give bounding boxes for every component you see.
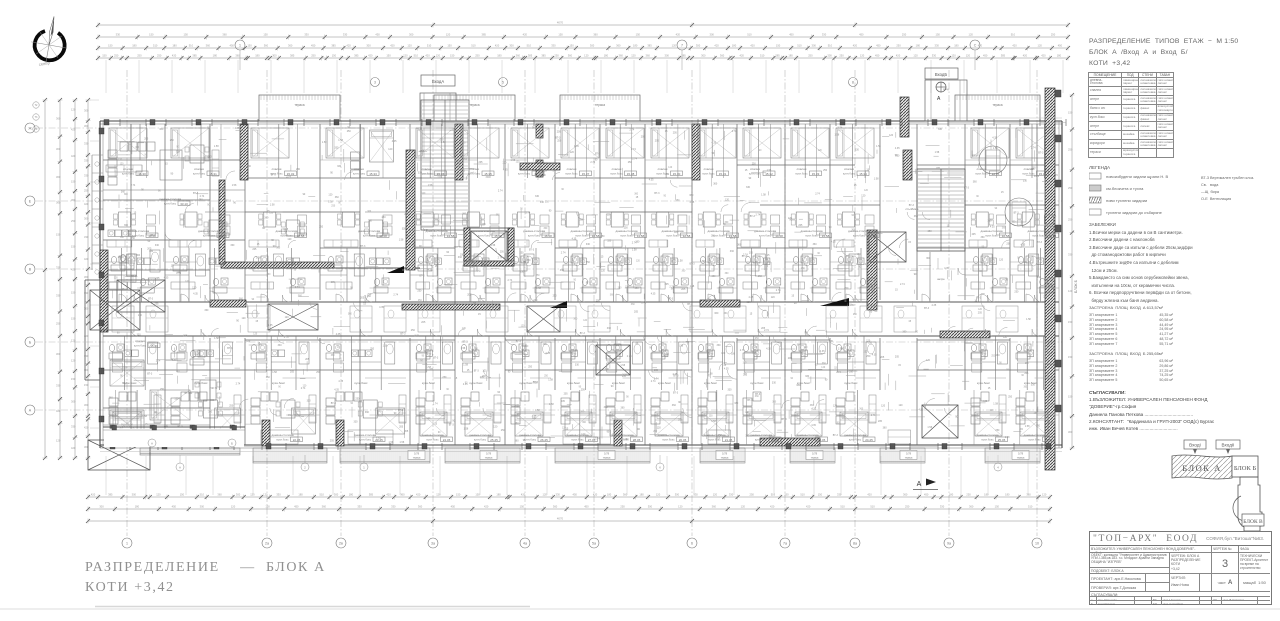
black slope wedge 1 bbox=[550, 301, 567, 308]
svg-text:90: 90 bbox=[1021, 375, 1024, 377]
kitchen row bbox=[858, 258, 865, 265]
svg-text:330: 330 bbox=[607, 239, 612, 242]
bed bbox=[215, 408, 241, 434]
svg-text:205: 205 bbox=[515, 404, 520, 407]
svg-text:360: 360 bbox=[159, 128, 164, 131]
sofa bbox=[561, 398, 570, 406]
kitchen row bbox=[717, 258, 724, 265]
svg-text:360: 360 bbox=[724, 313, 729, 315]
svg-text:4.35: 4.35 bbox=[820, 350, 825, 353]
svg-text:ВТ-3: ВТ-3 bbox=[755, 393, 761, 396]
kitchen row bbox=[848, 350, 855, 357]
svg-text:28.45: 28.45 bbox=[633, 438, 641, 442]
svg-text:330: 330 bbox=[822, 33, 827, 37]
partition bbox=[103, 261, 128, 263]
partition bbox=[291, 248, 293, 302]
door arc bbox=[433, 295, 440, 302]
svg-text:180: 180 bbox=[349, 493, 354, 497]
svg-text:90: 90 bbox=[145, 155, 148, 157]
drawing title bbox=[1089, 36, 1238, 69]
partition bbox=[134, 377, 161, 379]
svg-text:А: А bbox=[151, 441, 153, 445]
svg-text:кухн.бокс: кухн.бокс bbox=[518, 172, 531, 176]
partition bbox=[137, 287, 165, 289]
svg-text:4.35: 4.35 bbox=[463, 383, 468, 386]
svg-text:330: 330 bbox=[940, 505, 945, 509]
svg-text:спалня: спалня bbox=[194, 167, 204, 171]
wardrobe bbox=[326, 282, 352, 289]
kitchen row bbox=[435, 258, 442, 265]
door arc bbox=[471, 294, 479, 302]
svg-text:1.58: 1.58 bbox=[417, 218, 422, 221]
bathtub bbox=[474, 254, 484, 276]
svg-text:120: 120 bbox=[741, 505, 746, 509]
partition bbox=[1010, 159, 1032, 161]
partition bbox=[830, 261, 850, 263]
corridor walls bbox=[103, 301, 1059, 303]
svg-text:2в: 2в bbox=[339, 542, 343, 546]
svg-text:250: 250 bbox=[501, 429, 506, 432]
entrance B canopy bbox=[925, 80, 967, 121]
armchair bbox=[513, 352, 523, 361]
svg-text:120: 120 bbox=[1003, 336, 1008, 339]
svg-text:дневна-столова: дневна-столова bbox=[615, 229, 637, 233]
svg-text:15: 15 bbox=[455, 377, 458, 380]
bed bbox=[651, 128, 689, 158]
svg-text:330: 330 bbox=[932, 54, 937, 58]
svg-text:15: 15 bbox=[834, 367, 837, 370]
svg-text:250: 250 bbox=[995, 429, 1000, 432]
svg-text:120: 120 bbox=[636, 260, 641, 262]
svg-text:250: 250 bbox=[823, 169, 828, 172]
svg-text:300: 300 bbox=[99, 505, 104, 509]
sofa bbox=[698, 398, 707, 406]
svg-text:ВТ-3: ВТ-3 bbox=[151, 234, 157, 237]
svg-text:510: 510 bbox=[414, 54, 419, 58]
wc fixtures bbox=[745, 256, 750, 263]
svg-text:360: 360 bbox=[981, 236, 986, 239]
svg-text:90: 90 bbox=[995, 208, 998, 210]
svg-text:1.58: 1.58 bbox=[573, 349, 578, 352]
svg-text:250: 250 bbox=[319, 226, 324, 229]
svg-text:180: 180 bbox=[954, 44, 959, 48]
svg-text:ВТ-3: ВТ-3 bbox=[1014, 212, 1020, 215]
svg-text:360: 360 bbox=[222, 33, 227, 37]
svg-text:250: 250 bbox=[137, 54, 142, 58]
shaft left bbox=[117, 280, 165, 312]
svg-text:360: 360 bbox=[969, 505, 974, 509]
partition bbox=[103, 274, 122, 276]
svg-text:330: 330 bbox=[551, 44, 556, 48]
svg-text:330: 330 bbox=[1046, 291, 1051, 294]
bed bbox=[1020, 412, 1048, 436]
svg-text:кухн.бокс: кухн.бокс bbox=[1028, 438, 1041, 442]
svg-text:90: 90 bbox=[870, 311, 873, 314]
bed bbox=[251, 128, 289, 158]
partition bbox=[722, 336, 724, 390]
svg-text:250: 250 bbox=[839, 54, 844, 58]
svg-text:205: 205 bbox=[880, 356, 885, 359]
svg-text:дневна-столова: дневна-столова bbox=[271, 433, 293, 437]
partition bbox=[539, 124, 541, 178]
svg-text:250: 250 bbox=[808, 54, 813, 58]
partition bbox=[351, 336, 353, 390]
svg-text:150: 150 bbox=[475, 493, 480, 497]
svg-text:330: 330 bbox=[391, 505, 396, 509]
svg-text:150: 150 bbox=[56, 232, 61, 236]
svg-text:250: 250 bbox=[905, 505, 910, 509]
svg-text:120: 120 bbox=[725, 198, 730, 201]
svg-text:кухн.бокс: кухн.бокс bbox=[571, 438, 584, 442]
svg-text:150: 150 bbox=[456, 493, 461, 497]
bathtub bbox=[724, 342, 734, 364]
svg-text:150: 150 bbox=[1068, 394, 1073, 398]
svg-text:Ж: Ж bbox=[28, 127, 32, 131]
svg-text:90: 90 bbox=[759, 150, 762, 152]
svg-text:С: С bbox=[974, 44, 977, 48]
svg-text:16.58: 16.58 bbox=[544, 234, 552, 238]
svg-text:кухн.бокс: кухн.бокс bbox=[750, 381, 764, 385]
svg-text:б: б bbox=[659, 465, 661, 469]
svg-text:360: 360 bbox=[902, 330, 907, 333]
svg-text:250: 250 bbox=[554, 54, 559, 58]
svg-text:2.74: 2.74 bbox=[131, 184, 136, 187]
door arc bbox=[210, 291, 219, 300]
svg-text:дневна-столова: дневна-столова bbox=[354, 433, 376, 437]
shaft corridor 1 bbox=[268, 304, 318, 330]
svg-text:385: 385 bbox=[1001, 54, 1006, 58]
entrance label Вход II bbox=[1216, 440, 1240, 449]
sofa bbox=[261, 392, 269, 401]
svg-text:330: 330 bbox=[56, 383, 61, 387]
partition bbox=[705, 248, 707, 302]
svg-text:кухн.бокс: кухн.бокс bbox=[272, 381, 286, 385]
svg-text:15: 15 bbox=[413, 203, 416, 206]
svg-text:120: 120 bbox=[990, 410, 995, 412]
partition bbox=[514, 390, 516, 445]
bed bbox=[376, 408, 405, 434]
svg-text:2.74: 2.74 bbox=[236, 383, 241, 386]
armchair bbox=[540, 226, 549, 235]
svg-text:360: 360 bbox=[1037, 276, 1042, 279]
svg-text:420: 420 bbox=[714, 44, 719, 48]
svg-text:250: 250 bbox=[966, 493, 971, 497]
entrance B crest symbol bbox=[936, 82, 946, 92]
svg-text:250: 250 bbox=[1051, 33, 1056, 37]
svg-text:330: 330 bbox=[540, 201, 545, 204]
partition bbox=[245, 261, 275, 263]
svg-text:510: 510 bbox=[200, 493, 205, 497]
svg-text:150: 150 bbox=[71, 377, 76, 381]
partition bbox=[114, 390, 116, 445]
svg-text:дневна-столова: дневна-столова bbox=[566, 433, 588, 437]
svg-text:330: 330 bbox=[429, 368, 434, 371]
svg-text:кухн.бокс: кухн.бокс bbox=[612, 381, 626, 385]
svg-text:360: 360 bbox=[1019, 429, 1024, 431]
svg-text:1.58: 1.58 bbox=[1005, 436, 1010, 439]
svg-text:15: 15 bbox=[434, 422, 437, 425]
svg-text:360: 360 bbox=[582, 422, 587, 424]
svg-text:420: 420 bbox=[386, 493, 391, 497]
kitchen row bbox=[981, 350, 988, 357]
sofa bbox=[616, 392, 624, 401]
svg-text:205: 205 bbox=[798, 224, 803, 227]
partition bbox=[505, 261, 525, 263]
partition bbox=[582, 248, 584, 302]
door arc bbox=[521, 294, 529, 302]
svg-text:16.58: 16.58 bbox=[869, 234, 877, 238]
partition bbox=[489, 124, 491, 178]
svg-text:тераса: тераса bbox=[992, 103, 1002, 107]
partition bbox=[852, 124, 854, 178]
svg-text:БЛОК В: БЛОК В bbox=[1243, 519, 1263, 525]
partition bbox=[763, 287, 785, 289]
svg-text:ВТ-3: ВТ-3 bbox=[595, 152, 601, 155]
door arc bbox=[805, 329, 812, 336]
door arc bbox=[855, 295, 862, 302]
armchair bbox=[1017, 363, 1027, 372]
svg-text:Б: Б bbox=[29, 341, 32, 345]
svg-text:1.58: 1.58 bbox=[270, 203, 275, 206]
hatched corridor wall 1 bbox=[402, 304, 500, 310]
svg-text:4.35: 4.35 bbox=[990, 226, 995, 229]
svg-text:А: А bbox=[917, 481, 922, 488]
partition bbox=[996, 124, 998, 178]
svg-text:2.74: 2.74 bbox=[433, 402, 438, 405]
bed bbox=[461, 128, 499, 158]
bed bbox=[975, 412, 1002, 436]
svg-text:1.58: 1.58 bbox=[272, 371, 277, 374]
svg-text:205: 205 bbox=[522, 345, 527, 348]
svg-text:330: 330 bbox=[605, 368, 610, 371]
door arc bbox=[715, 295, 722, 302]
svg-text:205: 205 bbox=[564, 393, 569, 396]
page bottom shadow bbox=[0, 608, 1280, 610]
svg-text:1.58: 1.58 bbox=[389, 441, 394, 444]
svg-text:2.74: 2.74 bbox=[743, 253, 748, 256]
svg-text:север: север bbox=[38, 60, 51, 67]
svg-text:15.30: 15.30 bbox=[673, 172, 681, 176]
svg-text:330: 330 bbox=[276, 493, 281, 497]
hatched corridor wall 3 bbox=[210, 300, 246, 307]
wc fixtures bbox=[418, 256, 423, 263]
wardrobe bbox=[696, 240, 714, 247]
wc fixtures bbox=[1018, 256, 1023, 263]
svg-text:26.45: 26.45 bbox=[1045, 438, 1053, 442]
svg-text:2.74: 2.74 bbox=[376, 438, 381, 441]
svg-text:4.35: 4.35 bbox=[982, 400, 987, 403]
svg-text:360: 360 bbox=[634, 193, 639, 195]
svg-text:150: 150 bbox=[108, 44, 113, 48]
partition bbox=[585, 336, 587, 390]
svg-text:250: 250 bbox=[545, 201, 550, 203]
svg-text:250: 250 bbox=[114, 54, 119, 58]
svg-text:90: 90 bbox=[817, 253, 820, 255]
svg-text:2.74: 2.74 bbox=[424, 229, 429, 232]
elevator A dark walls bbox=[464, 228, 514, 266]
partition bbox=[380, 336, 382, 390]
bathtub bbox=[679, 342, 689, 364]
bed bbox=[610, 412, 637, 436]
door arc bbox=[201, 329, 208, 336]
svg-text:330: 330 bbox=[855, 148, 860, 151]
svg-text:510: 510 bbox=[189, 44, 194, 48]
partition bbox=[1010, 274, 1025, 276]
table and chairs bbox=[119, 212, 131, 227]
svg-text:510: 510 bbox=[800, 493, 805, 497]
svg-text:360: 360 bbox=[264, 44, 269, 48]
svg-text:тераса: тераса bbox=[905, 457, 913, 460]
svg-text:330: 330 bbox=[149, 250, 154, 253]
hatched wall stub 1 bbox=[262, 420, 270, 446]
svg-text:4.35: 4.35 bbox=[164, 276, 169, 279]
svg-text:90: 90 bbox=[278, 387, 281, 389]
kitchen row bbox=[754, 350, 761, 357]
armchair bbox=[383, 226, 392, 235]
svg-text:ВТ-3: ВТ-3 bbox=[331, 402, 337, 405]
svg-text:120: 120 bbox=[71, 108, 76, 112]
wardrobe bbox=[416, 282, 430, 289]
partition bbox=[980, 336, 982, 390]
hatched left hall wall bbox=[221, 262, 334, 268]
approvals bbox=[1089, 389, 1269, 432]
svg-text:120: 120 bbox=[242, 317, 247, 320]
table and chairs bbox=[264, 212, 276, 227]
svg-text:205: 205 bbox=[936, 167, 941, 170]
svg-text:ВТ-3: ВТ-3 bbox=[449, 423, 455, 426]
partition bbox=[769, 336, 771, 390]
partition bbox=[418, 390, 420, 445]
svg-text:330: 330 bbox=[84, 159, 89, 163]
svg-text:1.58: 1.58 bbox=[874, 230, 879, 233]
svg-text:1.58: 1.58 bbox=[548, 379, 553, 382]
svg-text:250: 250 bbox=[170, 139, 175, 142]
svg-text:120: 120 bbox=[174, 397, 179, 400]
armchair bbox=[334, 352, 344, 361]
svg-text:150: 150 bbox=[1068, 110, 1073, 114]
svg-text:ВТ-3: ВТ-3 bbox=[964, 186, 970, 189]
door arc bbox=[361, 329, 368, 336]
armchair bbox=[817, 215, 826, 224]
svg-text:150: 150 bbox=[447, 44, 452, 48]
svg-text:180: 180 bbox=[916, 44, 921, 48]
sofa bbox=[791, 398, 800, 406]
partition bbox=[600, 274, 614, 276]
svg-text:ВТ-3: ВТ-3 bbox=[833, 434, 839, 437]
svg-text:330: 330 bbox=[728, 388, 733, 391]
svg-text:90: 90 bbox=[976, 196, 979, 198]
svg-text:205: 205 bbox=[479, 161, 484, 164]
svg-text:кухн.бокс: кухн.бокс bbox=[610, 172, 623, 176]
partition bbox=[136, 390, 138, 445]
svg-text:2.74: 2.74 bbox=[176, 272, 181, 275]
svg-text:360: 360 bbox=[1026, 493, 1031, 497]
svg-text:300: 300 bbox=[56, 147, 61, 151]
svg-text:90: 90 bbox=[233, 202, 236, 205]
partition bbox=[770, 124, 772, 178]
svg-text:120: 120 bbox=[678, 505, 683, 509]
partition bbox=[858, 287, 881, 289]
phase cell bbox=[1239, 553, 1270, 574]
svg-text:2.74: 2.74 bbox=[415, 334, 420, 337]
svg-text:330: 330 bbox=[556, 493, 561, 497]
kitchen row bbox=[209, 258, 216, 265]
svg-text:дневна-столова: дневна-столова bbox=[523, 229, 545, 233]
partition bbox=[580, 414, 600, 416]
svg-text:120: 120 bbox=[864, 190, 869, 192]
svg-text:2.74: 2.74 bbox=[836, 371, 841, 374]
shaft 4 bbox=[922, 405, 958, 438]
svg-text:250: 250 bbox=[1025, 363, 1030, 365]
svg-text:205: 205 bbox=[1052, 381, 1057, 384]
wc fixtures bbox=[653, 256, 658, 263]
door arc bbox=[336, 294, 344, 302]
round armchair feature 1 bbox=[979, 146, 1007, 174]
sofa bbox=[326, 398, 335, 406]
svg-text:420: 420 bbox=[390, 44, 395, 48]
black slope wedge 2 bbox=[820, 298, 849, 306]
svg-text:0,78: 0,78 bbox=[486, 452, 492, 456]
partition bbox=[761, 377, 781, 379]
svg-text:15.31: 15.31 bbox=[719, 172, 727, 176]
svg-text:510: 510 bbox=[427, 44, 432, 48]
svg-text:90: 90 bbox=[520, 208, 523, 210]
partition bbox=[984, 124, 986, 178]
svg-text:385: 385 bbox=[108, 493, 113, 497]
svg-text:120: 120 bbox=[407, 44, 412, 48]
svg-text:250: 250 bbox=[544, 375, 549, 377]
kitchen row bbox=[108, 230, 115, 237]
svg-text:360: 360 bbox=[737, 243, 742, 246]
svg-text:120: 120 bbox=[287, 238, 292, 241]
svg-text:1.58: 1.58 bbox=[1025, 425, 1030, 428]
svg-text:2.74: 2.74 bbox=[393, 294, 398, 297]
left hall wall line bbox=[221, 267, 420, 269]
kitchen row bbox=[616, 350, 623, 357]
wc fixtures bbox=[171, 344, 176, 351]
svg-text:450: 450 bbox=[573, 493, 578, 497]
svg-text:510: 510 bbox=[471, 44, 476, 48]
svg-text:360: 360 bbox=[208, 155, 213, 158]
svg-text:180: 180 bbox=[788, 54, 793, 58]
left section bottom white patch bbox=[104, 429, 244, 447]
partition bbox=[483, 287, 506, 289]
bed bbox=[655, 412, 683, 436]
svg-text:385: 385 bbox=[528, 54, 533, 58]
outer wall bottom bbox=[100, 444, 1062, 446]
svg-text:180: 180 bbox=[496, 493, 501, 497]
bed bbox=[747, 412, 775, 436]
svg-text:205: 205 bbox=[156, 277, 161, 280]
svg-text:150: 150 bbox=[180, 493, 185, 497]
svg-text:2.74: 2.74 bbox=[654, 378, 659, 381]
door arc bbox=[575, 329, 582, 336]
svg-text:360: 360 bbox=[973, 180, 978, 183]
svg-text:385: 385 bbox=[681, 54, 686, 58]
svg-text:11.58: 11.58 bbox=[219, 234, 227, 238]
armchair bbox=[513, 363, 523, 372]
north arrow bbox=[28, 13, 72, 67]
svg-text:1.58: 1.58 bbox=[400, 441, 405, 444]
sofa bbox=[971, 398, 980, 406]
svg-text:450: 450 bbox=[983, 54, 988, 58]
sofa bbox=[251, 398, 260, 406]
svg-text:ВТ-3: ВТ-3 bbox=[730, 237, 736, 240]
armchair bbox=[699, 352, 709, 361]
svg-text:90: 90 bbox=[791, 378, 794, 380]
partition bbox=[200, 124, 202, 178]
partition bbox=[753, 336, 755, 390]
